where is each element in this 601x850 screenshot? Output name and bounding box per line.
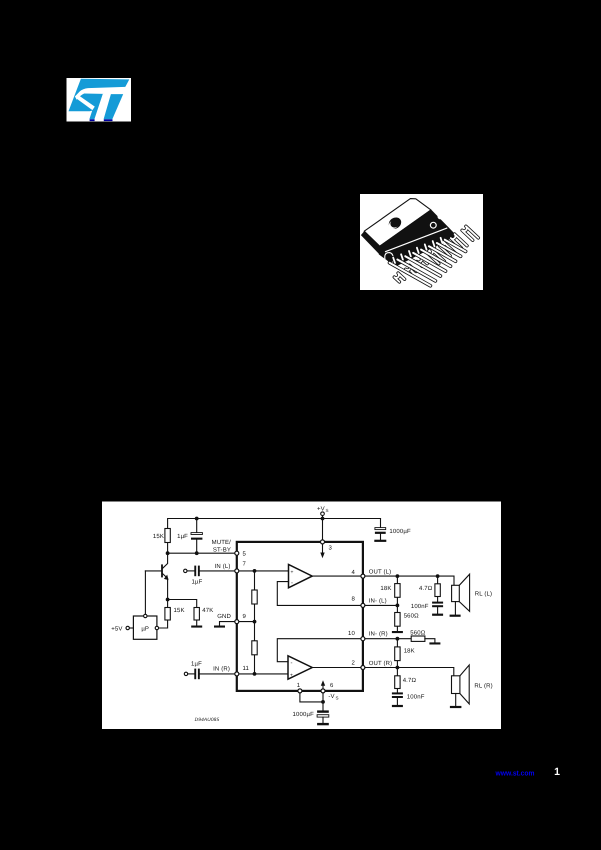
svg-text:100nF: 100nF bbox=[411, 603, 429, 610]
microprocessor box uP bbox=[133, 614, 158, 639]
svg-text:GND: GND bbox=[217, 613, 231, 620]
label OUT (L) bbox=[369, 569, 392, 576]
svg-text:1: 1 bbox=[297, 682, 301, 689]
wire +Vs to pin3 bbox=[322, 519, 324, 541]
wire pin8 right bbox=[365, 604, 399, 608]
svg-text:D94AU085: D94AU085 bbox=[195, 717, 220, 723]
svg-text:10: 10 bbox=[348, 630, 355, 637]
svg-text:MUTE/: MUTE/ bbox=[212, 539, 232, 546]
resistor 15K (emitter) bbox=[159, 600, 185, 629]
svg-text:5: 5 bbox=[243, 551, 247, 558]
body corner notch bbox=[438, 214, 443, 219]
svg-text:+V: +V bbox=[317, 506, 325, 513]
footer blue link bbox=[495, 769, 535, 778]
svg-text:RL (L): RL (L) bbox=[475, 591, 492, 598]
capacitor 100nF (L) bbox=[411, 602, 443, 616]
svg-text:8: 8 bbox=[352, 596, 356, 603]
svg-text:ST-BY: ST-BY bbox=[213, 547, 231, 554]
junction dots top bbox=[166, 517, 325, 556]
tab top face bbox=[364, 199, 431, 247]
svg-text:www.st.com: www.st.com bbox=[495, 769, 535, 778]
capacitor 1uF (mute) bbox=[177, 519, 202, 554]
navy tip under T stem bbox=[104, 119, 113, 121]
svg-text:3: 3 bbox=[329, 545, 333, 552]
svg-text:11: 11 bbox=[243, 665, 250, 672]
svg-text:4.7Ω: 4.7Ω bbox=[403, 677, 417, 684]
svg-text:7: 7 bbox=[243, 561, 247, 568]
label IN- (L) bbox=[369, 598, 387, 605]
resistor 560 (R) horizontal bbox=[410, 630, 440, 645]
svg-text:+5V: +5V bbox=[111, 625, 122, 632]
capacitor 1000uF (bottom) bbox=[293, 710, 329, 725]
svg-text:IN (R): IN (R) bbox=[213, 666, 230, 673]
wire pin11 to op-amp bbox=[239, 673, 288, 675]
pin 6 with -Vs arrow bbox=[321, 680, 339, 700]
wire top rail bbox=[168, 519, 381, 554]
wire pin10 right bbox=[365, 637, 411, 641]
svg-text:-V: -V bbox=[328, 693, 334, 700]
pin 3 arrow bbox=[320, 544, 332, 558]
svg-text:1000µF: 1000µF bbox=[293, 711, 315, 718]
T stem bbox=[104, 94, 124, 119]
svg-text:4: 4 bbox=[352, 569, 356, 576]
wire pin7 to op-amp bbox=[239, 570, 289, 572]
svg-text:9: 9 bbox=[243, 613, 247, 620]
IC block TDA amplifier bbox=[237, 542, 363, 691]
resistor feedback A bbox=[252, 571, 257, 622]
input terminal IN (L) bbox=[184, 569, 195, 572]
resistor feedback B bbox=[252, 620, 257, 676]
resistor 560 (L) to ground bbox=[392, 605, 419, 633]
input terminal IN (R) bbox=[184, 672, 194, 675]
pin 1 bbox=[297, 682, 302, 693]
svg-text:15K: 15K bbox=[174, 607, 185, 614]
svg-text:IN- (L): IN- (L) bbox=[369, 598, 387, 605]
bevel stripe bbox=[385, 228, 447, 252]
svg-text:1000µF: 1000µF bbox=[389, 528, 411, 535]
svg-text:4.7Ω: 4.7Ω bbox=[419, 585, 433, 592]
op-amp U1A bbox=[289, 564, 313, 587]
capacitor 1000uF (top) bbox=[374, 519, 411, 542]
pin 4 bbox=[352, 569, 365, 578]
svg-text:1µF: 1µF bbox=[191, 660, 202, 667]
+Vs terminal bbox=[317, 506, 329, 519]
svg-text:-: - bbox=[291, 661, 293, 667]
wire pin6 down bbox=[321, 693, 325, 711]
label OUT (R) bbox=[369, 660, 393, 667]
svg-text:IN (L): IN (L) bbox=[215, 563, 231, 570]
S body hull bbox=[69, 79, 130, 120]
resistor 4.7ohm (R) bbox=[395, 668, 417, 693]
resistor 18K (L) bbox=[380, 576, 400, 605]
junction dot pin7 wire bbox=[253, 569, 257, 573]
resistor 4.7ohm (L) bbox=[419, 576, 440, 602]
navy tip under S descender bbox=[90, 119, 95, 121]
pin 7 bbox=[235, 561, 247, 573]
S upper white channel bbox=[75, 87, 126, 100]
wire mute row bbox=[168, 552, 235, 554]
wire OUT R bbox=[365, 666, 454, 676]
ST logo blue mark bbox=[69, 79, 130, 121]
label IN (R) bbox=[213, 666, 230, 673]
op-amp U1A output wire bbox=[312, 575, 361, 577]
svg-text:OUT (R): OUT (R) bbox=[369, 660, 393, 667]
tab thickness edge bbox=[361, 231, 384, 254]
D-notch slot bbox=[385, 253, 393, 266]
svg-text:2: 2 bbox=[352, 660, 356, 667]
pin 3 bbox=[321, 540, 325, 544]
svg-text:18K: 18K bbox=[404, 647, 415, 654]
svg-text:6: 6 bbox=[330, 682, 334, 689]
svg-text:IN- (R): IN- (R) bbox=[369, 631, 388, 638]
pin 9 bbox=[235, 613, 247, 624]
op-amp U1B bbox=[288, 656, 312, 679]
label MUTE/ST-BY bbox=[212, 539, 232, 554]
back row bent pins bbox=[393, 226, 478, 282]
junction dots OUT L bbox=[396, 574, 440, 578]
svg-text:15K: 15K bbox=[153, 533, 164, 540]
svg-text:560Ω: 560Ω bbox=[410, 630, 425, 637]
resistor 47K bbox=[168, 600, 214, 628]
svg-text:+: + bbox=[291, 569, 294, 575]
svg-text:560Ω: 560Ω bbox=[404, 612, 419, 619]
label IN (L) bbox=[215, 563, 231, 570]
capacitor 1uF input R bbox=[191, 660, 235, 679]
svg-text:47K: 47K bbox=[202, 607, 213, 614]
D-notch wedge bbox=[386, 259, 391, 265]
resistor 18K (R) bbox=[395, 639, 415, 668]
package photo white box bbox=[360, 194, 483, 290]
svg-text:100nF: 100nF bbox=[407, 694, 425, 701]
capacitor 1uF input L bbox=[192, 566, 235, 586]
body screw hole ring bbox=[430, 222, 436, 228]
speaker RL (L) bbox=[450, 574, 493, 617]
wire pin9 to node bbox=[239, 621, 255, 623]
plastic body bbox=[379, 210, 456, 266]
figure label D94AU085 bbox=[195, 717, 220, 723]
tab mounting hole bbox=[387, 215, 404, 231]
label IN- (R) bbox=[369, 631, 388, 638]
wire pin1 to node bbox=[300, 693, 323, 702]
schematic white box bbox=[102, 502, 501, 730]
svg-text:1: 1 bbox=[554, 766, 560, 778]
svg-text:1µF: 1µF bbox=[192, 579, 203, 586]
svg-text:RL (R): RL (R) bbox=[474, 682, 492, 689]
pin 10 bbox=[348, 630, 365, 641]
wire base to uP bbox=[144, 571, 146, 614]
wire OUT L bbox=[365, 576, 454, 585]
svg-text:18K: 18K bbox=[380, 585, 391, 592]
svg-text:1µF: 1µF bbox=[177, 533, 188, 540]
pin 5 bbox=[235, 551, 247, 558]
op-amp U1B output wire bbox=[312, 667, 361, 669]
transistor Q1 bbox=[145, 553, 168, 599]
GND pin9 wire and ground bbox=[214, 613, 235, 628]
front row pins bbox=[390, 240, 466, 286]
svg-text:+: + bbox=[290, 673, 293, 679]
resistor 15K (top left) bbox=[153, 529, 170, 543]
S lower white wedge bbox=[76, 95, 95, 110]
svg-text:-: - bbox=[291, 580, 293, 586]
feedback wire U1B bbox=[277, 639, 361, 662]
junction dot emitter node bbox=[166, 598, 170, 602]
page number 1 bbox=[554, 766, 560, 778]
svg-text:S: S bbox=[336, 695, 339, 700]
feedback wire U1A bbox=[277, 582, 361, 606]
Multiwatt15 package drawing bbox=[361, 199, 478, 286]
pin 8 bbox=[352, 596, 365, 608]
ST logo white box bbox=[67, 78, 132, 122]
svg-text:OUT (L): OUT (L) bbox=[369, 569, 392, 576]
+5V terminal bbox=[111, 625, 133, 632]
svg-text:µP: µP bbox=[141, 625, 149, 632]
capacitor 100nF (R) bbox=[392, 692, 425, 707]
svg-text:S: S bbox=[326, 508, 329, 513]
speaker RL (R) bbox=[450, 665, 493, 708]
pin 2 bbox=[352, 660, 365, 670]
pin 11 bbox=[235, 665, 250, 676]
